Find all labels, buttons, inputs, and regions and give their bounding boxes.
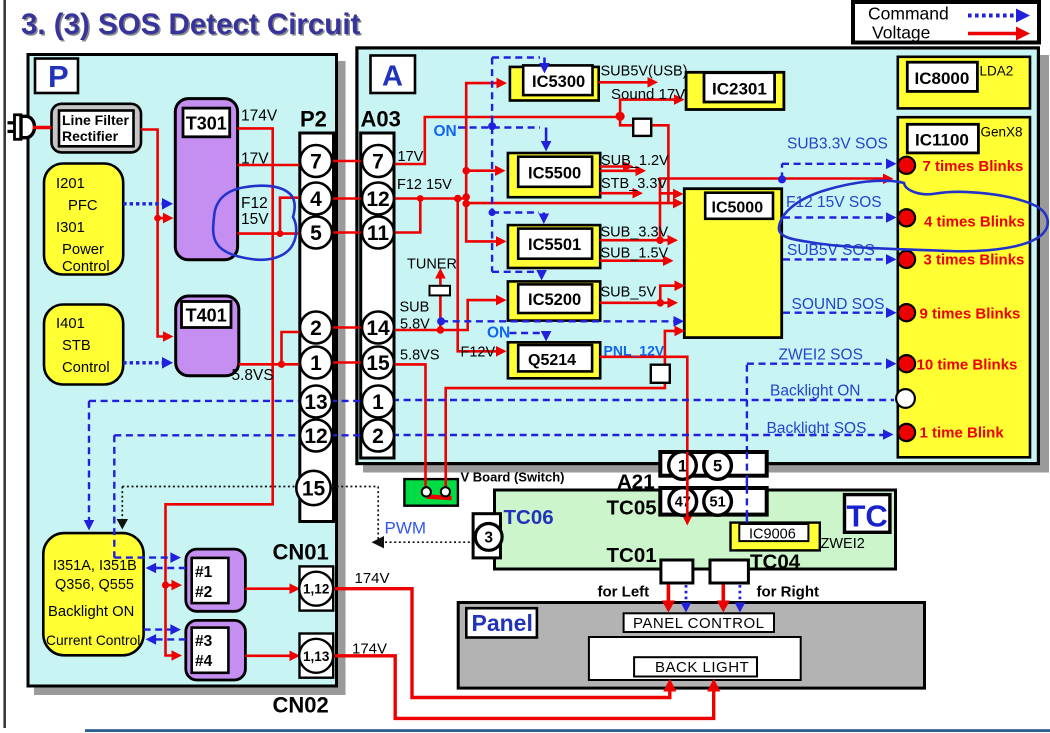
- wire: P2-7 to A03-7: [330, 160, 364, 163]
- svg-text:T301: T301: [186, 114, 227, 134]
- svg-text:IC8000: IC8000: [915, 69, 970, 88]
- svg-text:3 times Blinks: 3 times Blinks: [924, 252, 1025, 269]
- command: bank #1#2 return to control box: [150, 567, 186, 569]
- wire: SUB_3.3V from IC5501: [600, 239, 672, 242]
- svg-text:TC04: TC04: [750, 551, 801, 574]
- svg-text:IC5200: IC5200: [528, 291, 581, 309]
- svg-text:2: 2: [372, 425, 384, 448]
- svg-text:51: 51: [710, 495, 726, 511]
- P2 pin 12: [300, 420, 332, 452]
- svg-text:174V: 174V: [241, 108, 278, 125]
- wire: SUB_1.5V from IC5501: [600, 259, 668, 262]
- svg-text:CN01: CN01: [273, 540, 329, 565]
- wire: A03-15 5.8VS down to V board: [392, 364, 426, 489]
- svg-text:A21: A21: [617, 471, 655, 494]
- IC1100 (GenX8): [898, 117, 1030, 457]
- svg-text:1,12: 1,12: [303, 582, 329, 597]
- wire: P2-5 to A03-11: [330, 231, 364, 234]
- IC8000 (LDA2): [898, 57, 1030, 109]
- svg-text:3: 3: [484, 530, 493, 547]
- wire: plug to line filter: [33, 126, 52, 129]
- LED bank #3 #4: [186, 620, 246, 680]
- svg-text:A03: A03: [361, 107, 401, 132]
- svg-text:T401: T401: [186, 306, 227, 326]
- svg-text:PANEL CONTROL: PANEL CONTROL: [633, 615, 765, 632]
- AC plug icon: [8, 115, 35, 140]
- wire: SUB_3.3V riser to IC1100: [660, 179, 888, 241]
- svg-text:7: 7: [372, 151, 384, 174]
- svg-text:STB: STB: [62, 338, 91, 354]
- IC5000: [684, 189, 781, 338]
- CN01 connector: [299, 566, 333, 610]
- svg-text:3. (3) SOS Detect Circuit: 3. (3) SOS Detect Circuit: [21, 8, 361, 41]
- TC06 pin 3 connector: [473, 514, 502, 558]
- PWM dotted line from TC06-3 to P2-15: [117, 487, 472, 549]
- blue solid arrow into IC5200: [536, 270, 547, 281]
- A board shadow: [363, 55, 1049, 473]
- A03 pin 11: [362, 217, 394, 249]
- red arrowheads: [163, 77, 894, 692]
- A board panel: [357, 48, 1039, 464]
- command: branch to IC5501: [492, 211, 539, 213]
- svg-text:5.8V: 5.8V: [400, 317, 430, 333]
- wire: SUB_5V from IC5200: [600, 301, 672, 304]
- wire: bank #3#4 to CN02: [245, 654, 295, 657]
- svg-text:Backlight ON: Backlight ON: [770, 383, 860, 400]
- wire: F12V down to Q5214: [458, 199, 501, 352]
- fuse: V board return line: [651, 365, 670, 383]
- wire: P2-2 to A03-14: [330, 326, 364, 329]
- P board shadow: [34, 61, 346, 695]
- svg-text:LDA2: LDA2: [980, 64, 1014, 79]
- LED bank #1 #2: [186, 549, 246, 611]
- TC05 connector bar: [660, 488, 766, 516]
- LED 3 blinks: [898, 251, 915, 268]
- TC04 connector box: [710, 560, 748, 583]
- svg-text:BACK LIGHT: BACK LIGHT: [655, 659, 749, 676]
- command: bottom corner to IC5200: [492, 271, 538, 273]
- command: backlight SOS line P2-12 A03-2: [114, 434, 888, 437]
- transformer T301: [175, 99, 237, 260]
- svg-text:7: 7: [310, 151, 322, 174]
- svg-text:IC9006: IC9006: [749, 527, 796, 543]
- svg-text:1 time Blink: 1 time Blink: [920, 425, 1005, 442]
- I401 STB control block: [44, 305, 123, 385]
- BACK LIGHT box: [634, 657, 757, 676]
- command: riser x=114 to bank #1#2: [114, 435, 174, 557]
- wire: F12 riser to IC5300: [466, 83, 501, 198]
- svg-text:I351A, I351B: I351A, I351B: [53, 558, 137, 574]
- svg-text:ZWEI2 SOS: ZWEI2 SOS: [779, 347, 863, 364]
- svg-text:V Board (Switch): V Board (Switch): [461, 470, 565, 485]
- IC5300: [510, 65, 599, 100]
- wire: PNL_12V from Q5214 down through A21 TC05: [600, 357, 687, 519]
- svg-text:TUNER: TUNER: [407, 257, 457, 273]
- A03 connector strip: [361, 133, 394, 458]
- svg-text:F12V: F12V: [461, 345, 496, 361]
- svg-text:CN02: CN02: [273, 693, 329, 718]
- wire: P2-1 to A03-15: [330, 361, 364, 364]
- V board switch contacts: [422, 487, 452, 498]
- svg-text:17V: 17V: [241, 151, 269, 168]
- svg-text:#2: #2: [195, 584, 212, 601]
- svg-text:174V: 174V: [355, 570, 390, 587]
- blue junction dots on command lines: [437, 122, 786, 325]
- svg-text:4 times Blinks: 4 times Blinks: [924, 214, 1025, 231]
- freehand circle around 4 times blinks: [779, 181, 1048, 252]
- wire: SUB_5V branch into IC5000: [660, 286, 680, 303]
- CN02 connector: [299, 634, 333, 678]
- svg-text:TC: TC: [847, 499, 888, 534]
- svg-text:IC1100: IC1100: [915, 131, 969, 150]
- A03 pin 15: [362, 347, 394, 379]
- junction dots (red): [154, 112, 664, 589]
- P2 pin 2: [300, 312, 332, 344]
- legend voltage red arrow: [968, 27, 1030, 41]
- wire: branch into bank #1#2: [166, 584, 179, 587]
- svg-text:SUB5V(USB): SUB5V(USB): [601, 64, 688, 80]
- wire: 17V rail into IC2301: [620, 100, 679, 117]
- wire: P2-4 to A03-12: [330, 197, 364, 200]
- P board panel: [28, 55, 337, 687]
- wire: T301 F12 15V to P2-5 and P2-4: [238, 198, 301, 234]
- wire: line filter to T301/T401 feed: [141, 130, 170, 337]
- svg-text:Control: Control: [62, 360, 110, 376]
- svg-text:9 times Blinks: 9 times Blinks: [920, 306, 1021, 323]
- fuse: sound 17V line: [633, 119, 651, 136]
- svg-text:STB_3.3V: STB_3.3V: [601, 176, 667, 192]
- fuse: tuner line: [430, 286, 451, 296]
- A03 pin 1: [362, 386, 394, 418]
- svg-text:1: 1: [372, 391, 384, 414]
- wire: STB_3.3V arrow from IC5500: [600, 192, 637, 195]
- svg-text:PFC: PFC: [68, 198, 98, 214]
- svg-text:ON: ON: [434, 123, 457, 140]
- svg-text:A: A: [382, 61, 403, 93]
- command dotted arrow I401 to T401: [123, 357, 173, 369]
- wire: SUB5V(USB) from IC5300: [599, 81, 652, 84]
- P2 pin 15: [296, 471, 330, 505]
- svg-text:SOUND SOS: SOUND SOS: [792, 296, 885, 313]
- transformer T401: [176, 296, 239, 376]
- page bottom blue rule: [85, 729, 1050, 732]
- V board switch (green): [404, 479, 458, 506]
- svg-text:P: P: [48, 59, 69, 94]
- svg-text:#1: #1: [195, 564, 213, 581]
- IC9006: [731, 523, 820, 551]
- svg-text:Current Control: Current Control: [46, 633, 140, 648]
- LED 1 blink: [898, 424, 915, 441]
- command: bank #3#4 return: [150, 638, 186, 640]
- svg-text:for Right: for Right: [757, 584, 819, 601]
- command: SOUND SOS dashed: [783, 312, 891, 314]
- svg-text:SUB_5V: SUB_5V: [601, 285, 657, 301]
- TC board panel (green): [495, 490, 896, 569]
- svg-text:13: 13: [304, 391, 327, 414]
- svg-text:SUB_3.3V: SUB_3.3V: [601, 225, 669, 241]
- wire: branch into IC5000 top: [660, 192, 678, 195]
- command: F12 15V SOS dashed: [783, 216, 891, 218]
- svg-text:10 time Blinks: 10 time Blinks: [917, 357, 1018, 374]
- command: ZWEI2 SOS dashed: [747, 364, 891, 523]
- wire: TC01 red arrow to panel control: [667, 583, 671, 607]
- svg-text:12: 12: [304, 425, 327, 448]
- PNL_12V wire over A21/TC05: [686, 452, 689, 519]
- Panel board label box: [466, 608, 537, 637]
- wire: bank #1#2 to CN01: [245, 587, 295, 590]
- wire: A03-14 SUB 5.8V rail to IC5200: [392, 300, 501, 330]
- IC5501: [508, 225, 600, 268]
- svg-text:IC5501: IC5501: [528, 236, 581, 254]
- command: ON dashed to IC5500: [458, 126, 540, 128]
- svg-text:P2: P2: [300, 107, 327, 132]
- backlight on current control block (I351A I351B Q356 Q555): [43, 533, 143, 655]
- svg-text:15: 15: [302, 478, 326, 501]
- wire: T401 5.8V to P2-1 and P2-2: [239, 332, 302, 364]
- line filter rectifier block: [52, 104, 142, 153]
- A03 pin 2: [362, 420, 394, 452]
- blue solid arrow into IC5500: [541, 128, 552, 152]
- svg-text:1: 1: [310, 352, 322, 375]
- svg-text:5.8VS: 5.8VS: [400, 348, 440, 364]
- TC board label box: [845, 495, 890, 534]
- command: SUB5V SOS dashed: [783, 258, 891, 260]
- blue solid arrow into IC5501: [539, 213, 550, 225]
- A03 pin 14: [362, 312, 394, 344]
- LED 4 blinks: [898, 209, 915, 226]
- svg-text:ZWEI2: ZWEI2: [821, 536, 865, 552]
- svg-text:I201: I201: [56, 176, 85, 192]
- svg-text:SUB_1.5V: SUB_1.5V: [601, 246, 669, 262]
- command dotted arrows TC01 TC04 to panel control: [681, 585, 746, 613]
- command: SUB3.3V SOS dashed: [782, 164, 891, 180]
- A board label box: [371, 56, 416, 94]
- svg-text:F12: F12: [241, 195, 268, 212]
- svg-text:Backlight ON: Backlight ON: [48, 604, 134, 620]
- svg-text:5: 5: [310, 222, 322, 245]
- wire: TC04 red arrow to panel control: [721, 583, 725, 607]
- blue arrowheads for command lines: [84, 159, 897, 645]
- svg-text:7 times Blinks: 7 times Blinks: [923, 158, 1024, 175]
- A03 pin 7: [362, 145, 394, 177]
- svg-text:Voltage: Voltage: [872, 23, 930, 43]
- command: riser to backlight control box: [88, 401, 90, 525]
- LED 7 blinks: [898, 157, 915, 174]
- svg-text:4: 4: [310, 188, 322, 211]
- page left border line: [3, 0, 6, 728]
- blue solid arrow into IC5300: [539, 58, 550, 74]
- A21 connector bar: [660, 452, 766, 480]
- svg-text:SUB: SUB: [400, 300, 430, 316]
- wire: CN01 174V to backlight: [333, 589, 670, 698]
- svg-text:ON: ON: [487, 325, 510, 342]
- PANEL CONTROL box: [624, 613, 774, 632]
- svg-text:Power: Power: [62, 242, 104, 258]
- command: dashed riser x=492: [491, 58, 493, 272]
- freehand circle around F12 15V pins: [213, 186, 296, 260]
- svg-text:14: 14: [366, 317, 390, 340]
- P board label box: [35, 59, 78, 95]
- svg-text:SUB3.3V SOS: SUB3.3V SOS: [787, 136, 888, 153]
- svg-text:Line Filter: Line Filter: [62, 112, 129, 128]
- legend box: [853, 2, 1039, 43]
- wire: branch into IC5500: [466, 169, 500, 172]
- wire: A03-11 up to F12 rail: [392, 199, 420, 233]
- command: SUB 5.8V dashed to IC5000: [441, 320, 679, 322]
- svg-text:TC06: TC06: [504, 506, 554, 529]
- IC5200: [508, 281, 600, 320]
- TC01 connector box: [661, 560, 693, 583]
- svg-text:174V: 174V: [352, 641, 387, 658]
- P2 pin 1: [300, 347, 332, 379]
- svg-text:11: 11: [367, 222, 390, 245]
- svg-text:5: 5: [713, 458, 722, 476]
- svg-text:IC2301: IC2301: [712, 80, 767, 99]
- P2 pin 7: [300, 145, 332, 177]
- svg-text:#4: #4: [195, 653, 213, 670]
- svg-text:Control: Control: [62, 259, 110, 275]
- command dotted arrow I201 to T301: [123, 198, 173, 210]
- P2 pin 4: [300, 183, 332, 215]
- svg-text:F12 15V SOS: F12 15V SOS: [786, 194, 882, 211]
- transistor Q5214: [508, 342, 600, 378]
- svg-text:TC01: TC01: [607, 544, 657, 567]
- wire: tuner fuse feed: [439, 274, 442, 331]
- svg-text:5.8VS: 5.8VS: [232, 367, 274, 384]
- svg-text:2: 2: [310, 317, 322, 340]
- svg-text:TC05: TC05: [607, 497, 657, 520]
- wire: SUB_1.2V arrows from IC5500: [600, 167, 640, 171]
- LED 9 blinks: [898, 304, 915, 321]
- svg-text:GenX8: GenX8: [981, 125, 1023, 140]
- command: control box to bank #3#4: [144, 628, 174, 630]
- svg-text:Backlight SOS: Backlight SOS: [767, 420, 867, 437]
- wire: T301 17V to P2-7: [238, 164, 301, 167]
- wire: V board return up through fuse into IC5000: [446, 331, 680, 489]
- svg-text:Q356, Q555: Q356, Q555: [55, 577, 134, 593]
- blue solid arrow into Q5214: [541, 331, 552, 342]
- LED backlight ON (white): [896, 389, 915, 408]
- Panel board (gray): [458, 603, 924, 689]
- svg-text:for Left: for Left: [598, 584, 650, 601]
- svg-text:I401: I401: [56, 316, 85, 332]
- svg-text:15: 15: [366, 352, 390, 375]
- svg-text:Q5214: Q5214: [528, 352, 576, 369]
- wire: branch into T301: [158, 217, 170, 220]
- ZWEI2 dashed over bars: [746, 452, 748, 522]
- A03 pin 12: [362, 183, 394, 215]
- command: backlight ON line P2-13 A03-1: [89, 399, 894, 402]
- svg-text:IC5000: IC5000: [712, 200, 764, 217]
- svg-text:Command: Command: [868, 4, 949, 24]
- P2 pin 5: [300, 217, 332, 249]
- svg-text:SUB_1.2V: SUB_1.2V: [601, 153, 669, 169]
- svg-text:Rectifier: Rectifier: [62, 128, 119, 144]
- svg-text:F12 15V: F12 15V: [397, 177, 452, 193]
- svg-text:#3: #3: [195, 633, 213, 650]
- wire: 17V rail to fuse and down to IC5000: [620, 117, 668, 203]
- IC5500: [508, 153, 600, 197]
- wire: A03-12 F12 15V rail: [392, 199, 678, 204]
- title: 3. (3) SOS Detect Circuit: [21, 8, 362, 43]
- svg-text:PWM: PWM: [385, 519, 427, 538]
- command: top corner to IC5300: [492, 56, 540, 58]
- command: ON dashed to Q5214: [510, 332, 542, 334]
- wire: CN02 174V to backlight: [333, 656, 714, 719]
- svg-text:Sound 17V: Sound 17V: [611, 86, 685, 103]
- svg-text:1,13: 1,13: [303, 649, 330, 664]
- P2 connector strip: [300, 133, 334, 522]
- wire: A03-7 17V up to sound-17V rail: [392, 117, 620, 164]
- svg-text:1: 1: [678, 458, 687, 476]
- svg-text:17V: 17V: [398, 149, 424, 165]
- svg-text:PNL_12V: PNL_12V: [604, 343, 665, 359]
- svg-text:12: 12: [366, 188, 389, 211]
- wire: branch into IC5501: [466, 203, 501, 241]
- svg-text:IC5300: IC5300: [532, 73, 585, 91]
- svg-text:Panel: Panel: [472, 610, 533, 636]
- wire: T301 174V down to LED banks: [166, 128, 273, 655]
- back light outer white box: [589, 637, 801, 680]
- svg-text:15V: 15V: [241, 211, 269, 228]
- IC2301: [686, 72, 784, 109]
- LED 10 blinks: [898, 355, 915, 372]
- P2 pin 13: [300, 386, 332, 418]
- svg-text:IC5500: IC5500: [528, 165, 581, 183]
- svg-text:I301: I301: [56, 220, 85, 236]
- legend command dotted arrow: [968, 9, 1030, 23]
- I201 PFC I301 power control block: [44, 164, 123, 276]
